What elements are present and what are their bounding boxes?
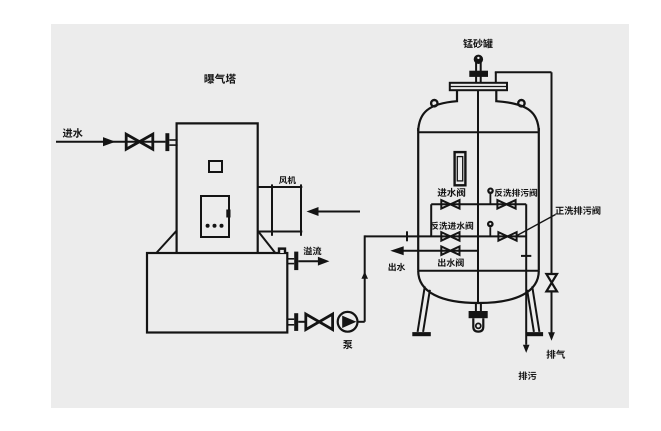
pipe backwash rail	[365, 235, 527, 237]
drain fitting cap	[473, 318, 483, 331]
exhaust riser	[495, 72, 497, 83]
diagram background panel	[51, 24, 629, 408]
tower skirt right	[258, 231, 275, 253]
label 泵	[343, 340, 353, 349]
drain vertical	[525, 204, 527, 344]
flow arrow inlet	[103, 137, 116, 146]
lifting lug right	[518, 100, 524, 106]
vent fitting ball	[474, 55, 483, 64]
crossing tick	[406, 231, 408, 241]
fan duct	[258, 186, 303, 188]
sight glass	[455, 152, 466, 185]
pump suction stub	[287, 318, 294, 320]
exhaust down pipe	[551, 72, 553, 274]
manifold left vertical	[430, 204, 432, 236]
riser pipe pump to rail	[364, 235, 366, 321]
tank bottom head	[418, 271, 539, 303]
tank top head right	[496, 90, 539, 132]
door handle	[226, 210, 230, 218]
label 锰砂罐	[463, 39, 493, 48]
label 出水	[389, 263, 406, 271]
vent fitting stem	[475, 63, 477, 83]
manifold rail 1	[431, 203, 526, 205]
tower door	[201, 196, 229, 237]
pipe raw water inlet	[56, 141, 165, 143]
valve pump suction	[306, 314, 333, 330]
exhaust top pipe	[495, 71, 552, 73]
leader line	[517, 215, 556, 236]
tank shell left	[417, 128, 419, 271]
air flow arrow	[318, 211, 360, 213]
valve exhaust	[546, 274, 557, 291]
label 进水	[63, 128, 83, 138]
pump suction flange	[294, 313, 298, 331]
tank top flange	[450, 83, 507, 90]
flow arrow up	[361, 272, 368, 279]
tank top head left	[418, 90, 457, 132]
label 曝气塔	[204, 74, 235, 84]
tank bottom weld line	[418, 270, 539, 272]
tank shell right	[538, 128, 540, 271]
valve inlet	[126, 134, 153, 149]
overflow stub	[287, 258, 294, 260]
pump P	[338, 312, 358, 332]
pipe pump discharge	[358, 321, 365, 323]
label 反洗进水阀	[431, 222, 474, 230]
valve 出水阀	[441, 246, 459, 255]
lifting lug left	[431, 100, 437, 106]
flange inlet	[165, 133, 169, 151]
tank top weld line	[418, 131, 539, 133]
vent fitting crossbar	[469, 71, 488, 77]
label 反洗排污阀	[495, 189, 538, 197]
drain fitting stem	[475, 303, 477, 312]
label 进水阀	[438, 188, 466, 197]
pipe flange to valve	[298, 321, 306, 323]
tower skirt left	[156, 231, 176, 253]
pipe stub into tower	[169, 139, 177, 141]
overflow arrow	[298, 260, 320, 262]
label 溢流	[303, 247, 321, 256]
drain fitting crossbar	[469, 311, 488, 318]
label 出水阀	[438, 258, 464, 266]
overflow flange	[294, 252, 298, 271]
gauge 2	[489, 227, 491, 236]
label 风机	[279, 176, 296, 184]
leg right	[532, 286, 539, 332]
label 排污	[519, 371, 537, 380]
valve 反洗排污阀	[497, 200, 515, 209]
tank center pipe	[477, 90, 479, 303]
label 正洗排污阀	[555, 206, 600, 215]
valve 正洗排污阀	[498, 232, 516, 241]
manifold rail 2 valves	[441, 232, 459, 241]
tower body	[177, 123, 258, 253]
lower basin tank	[147, 253, 287, 333]
pipe outlet rail	[403, 250, 478, 252]
basin top fitting	[278, 247, 286, 253]
crossing dash	[521, 255, 531, 257]
valve 进水阀	[441, 200, 459, 209]
door dots	[206, 224, 210, 228]
label 排气	[546, 350, 565, 359]
gauge 1	[489, 194, 491, 204]
leg left	[418, 286, 425, 332]
tower window	[209, 161, 222, 172]
